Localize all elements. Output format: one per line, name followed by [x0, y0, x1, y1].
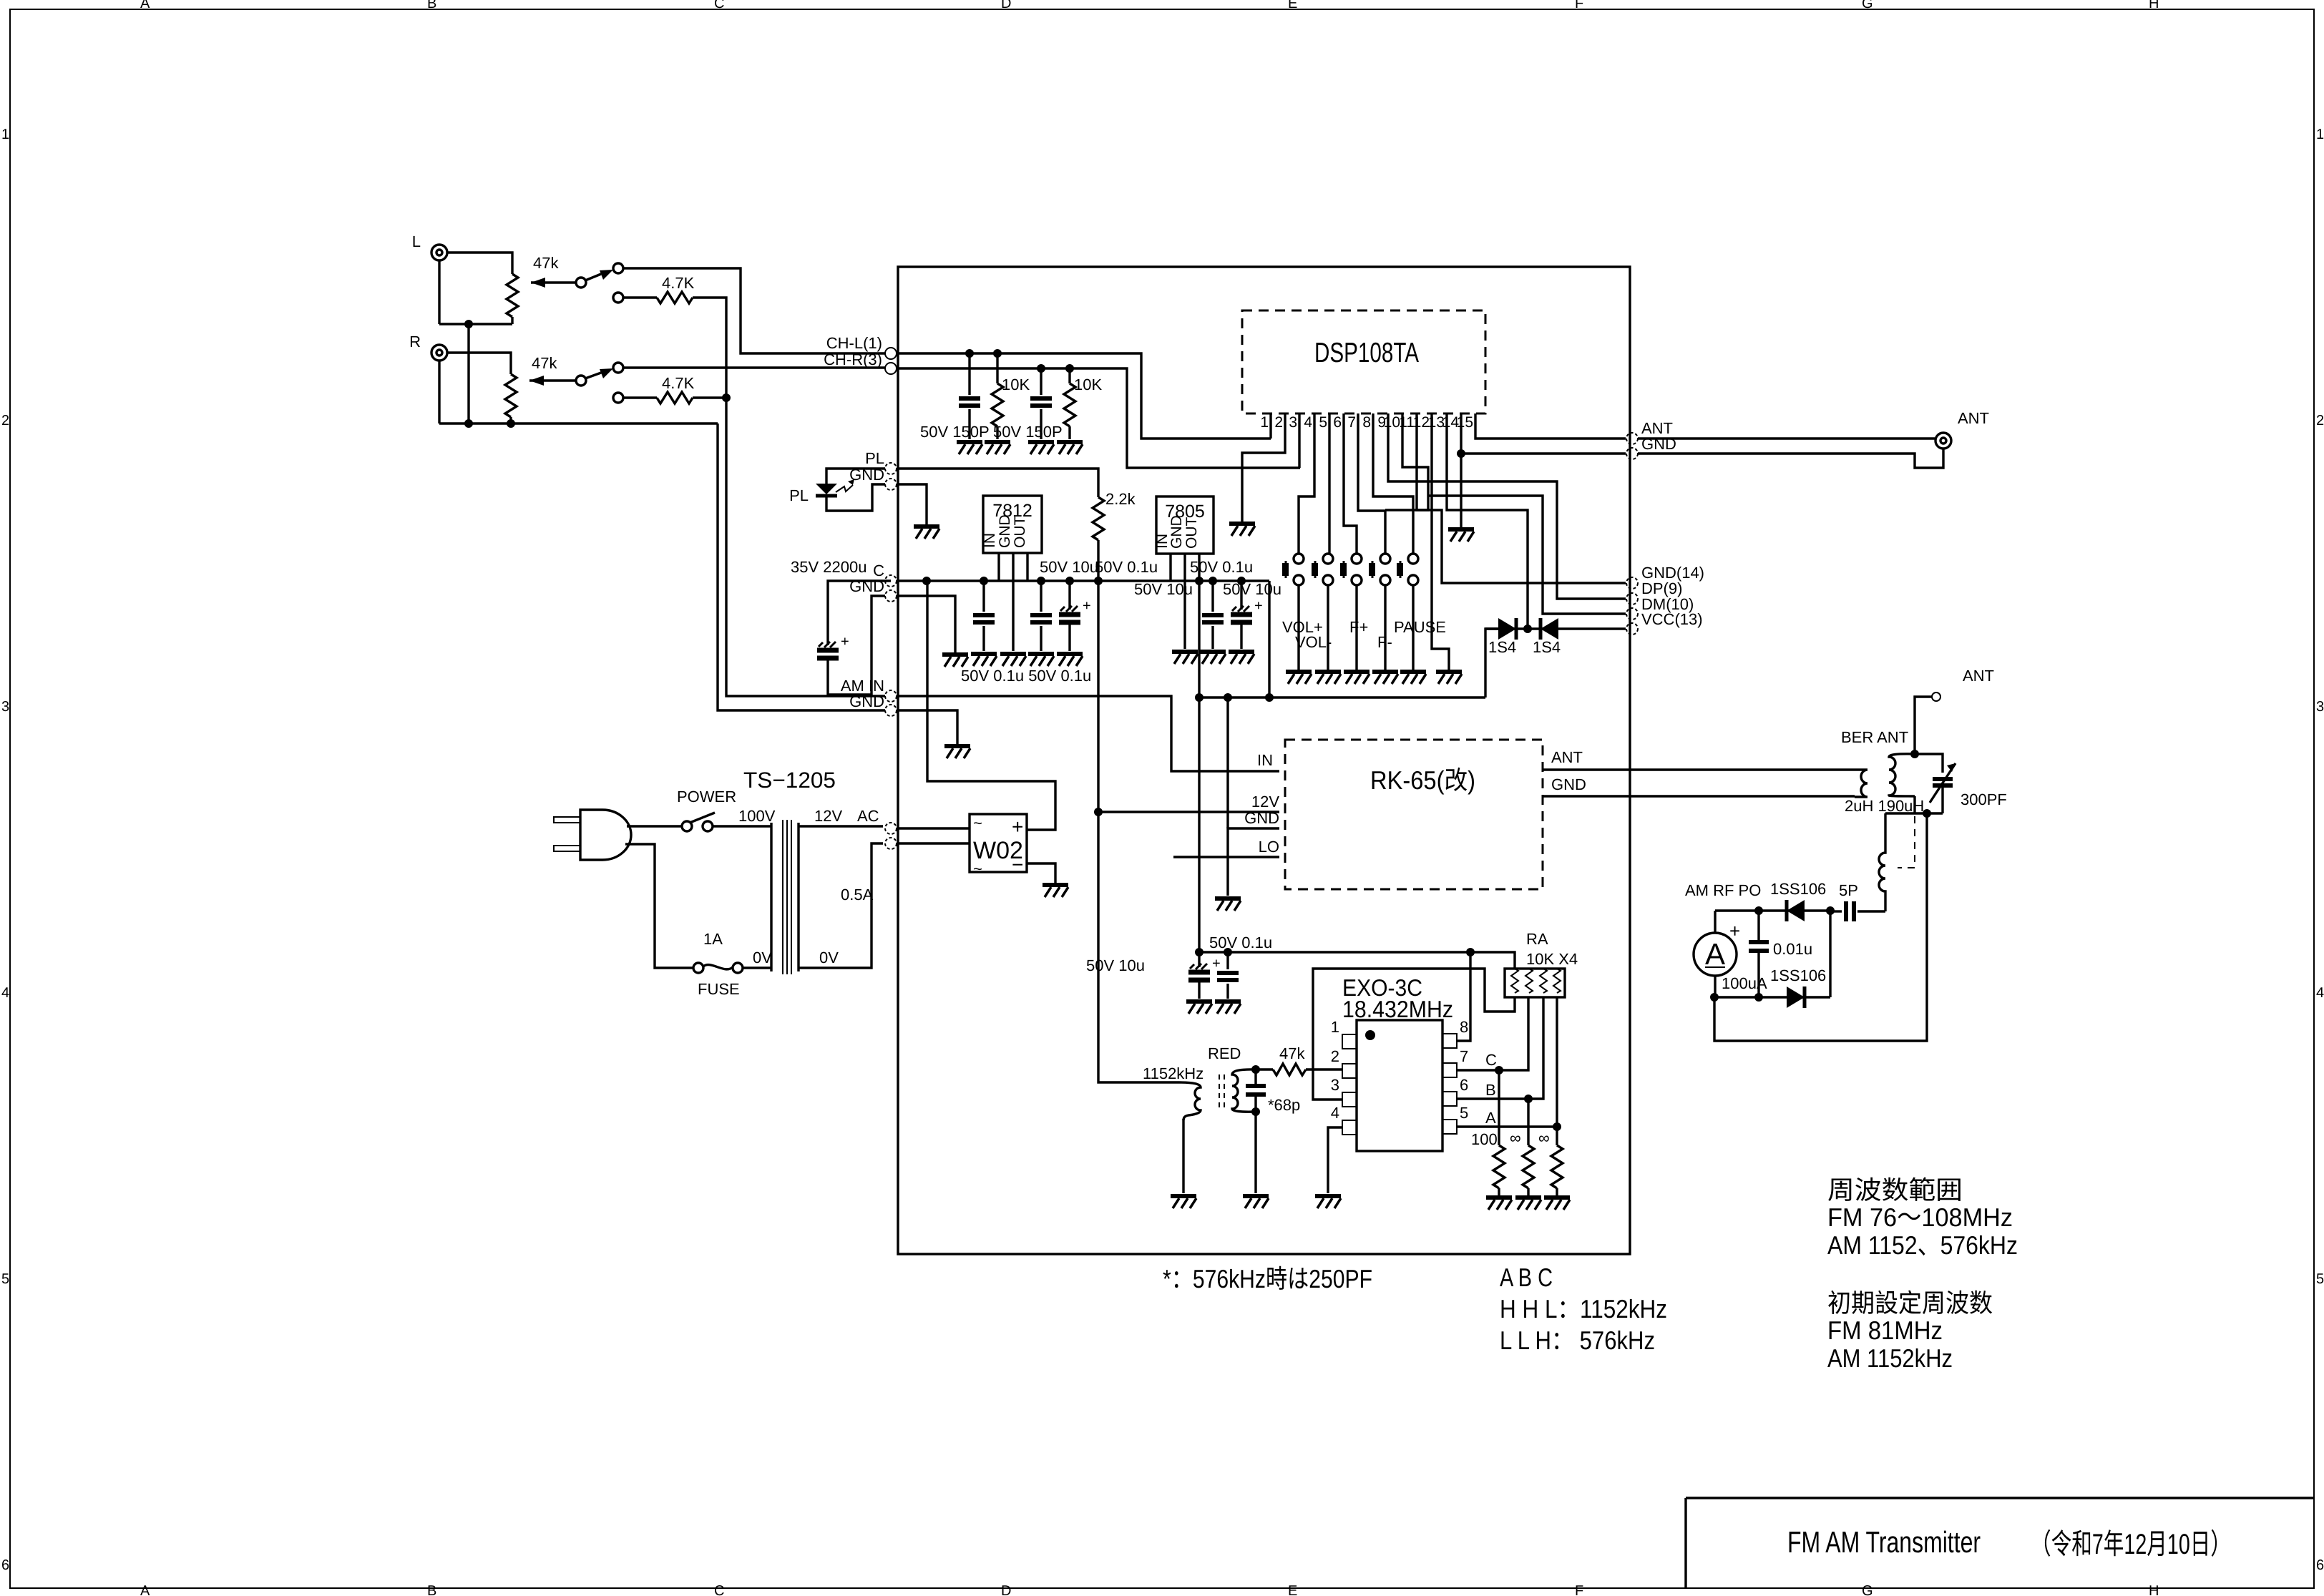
- node CH-R caps: [1037, 364, 1045, 373]
- svg-text:12V: 12V: [1251, 793, 1279, 811]
- svg-text:L: L: [412, 232, 421, 250]
- node BER top: [1910, 750, 1919, 758]
- push button PAUSE: [1397, 554, 1418, 585]
- wire SW-L top throw to CH-L: [623, 268, 885, 353]
- svg-text:B: B: [427, 1583, 436, 1596]
- jack ANT (box right): [1626, 433, 1638, 444]
- svg-text:4: 4: [2316, 985, 2324, 1001]
- wire 68p bottom to ground: [1254, 1112, 1256, 1193]
- wire plug to switch: [627, 825, 682, 827]
- wire CH-R jack to pin3 route: [897, 368, 1300, 468]
- capacitor *68p: [1254, 1069, 1256, 1112]
- IC DSP108TA dashed box: [1242, 310, 1485, 413]
- svg-text:2uH 190uH: 2uH 190uH: [1845, 797, 1924, 815]
- svg-text:4.7K: 4.7K: [662, 274, 695, 292]
- svg-text:12: 12: [1413, 414, 1430, 431]
- ground cap L: [957, 442, 982, 454]
- inductor AM loading coil: [1879, 813, 1885, 911]
- module RK-65(改) dashed box: [1285, 740, 1543, 889]
- jack ANT top right: [1935, 409, 1989, 449]
- svg-text:A: A: [140, 0, 150, 11]
- LED PL: [789, 469, 885, 511]
- svg-text:*68p: *68p: [1268, 1096, 1300, 1114]
- svg-text:1: 1: [1331, 1018, 1339, 1036]
- svg-text:5: 5: [1319, 414, 1327, 431]
- wire coil to 5P: [1857, 910, 1885, 912]
- svg-text:10K: 10K: [1074, 376, 1102, 393]
- title block: [1686, 1498, 2314, 1588]
- svg-text:LO: LO: [1259, 838, 1279, 856]
- wire box GND to jack sleeve: [1638, 449, 1943, 468]
- pin 13 wire to VCC branch: [1447, 413, 1528, 629]
- svg-text:10: 10: [1384, 414, 1400, 431]
- svg-text:GND: GND: [997, 514, 1013, 548]
- AC plug: [554, 810, 631, 860]
- svg-text:15: 15: [1457, 414, 1473, 431]
- svg-text:∞: ∞: [1510, 1129, 1521, 1147]
- svg-text:50V 10u: 50V 10u: [1223, 580, 1281, 598]
- svg-text:1: 1: [1, 127, 9, 142]
- jack GND (box right): [1626, 448, 1638, 459]
- svg-text:4: 4: [1331, 1104, 1339, 1122]
- svg-text:~: ~: [973, 814, 982, 832]
- wire 4.7K R output to AM bus: [693, 396, 726, 398]
- wire C GND to ground: [897, 596, 955, 652]
- node CH-L caps: [965, 349, 974, 358]
- svg-text:B: B: [1485, 1081, 1496, 1099]
- svg-text:2: 2: [2316, 413, 2324, 429]
- node rail taps: [922, 577, 931, 585]
- svg-text:E: E: [1288, 1583, 1297, 1596]
- capacitor 50V 10u (5V): [1240, 581, 1242, 609]
- table A B C: [1500, 1263, 1667, 1355]
- svg-text:1SS106: 1SS106: [1770, 880, 1826, 898]
- main circuit box: [898, 267, 1630, 1254]
- wire secondary top to AC jack: [799, 825, 883, 827]
- svg-text:GND: GND: [849, 692, 884, 710]
- svg-text:4: 4: [1, 985, 9, 1001]
- resistor 2.2k: [1093, 497, 1104, 540]
- svg-text:6: 6: [1460, 1076, 1468, 1094]
- svg-text:ANT: ANT: [1963, 667, 1994, 685]
- jack DM(10): [1626, 608, 1638, 620]
- node RED secondary top: [1251, 1065, 1260, 1074]
- svg-text:B: B: [427, 0, 436, 11]
- jack AM IN: [885, 690, 897, 702]
- svg-text:AM 1152kHz: AM 1152kHz: [1827, 1343, 1953, 1373]
- pin 11 wire to GND(14) jack: [1417, 413, 1626, 583]
- pin 7 wire to F-: [1358, 413, 1385, 554]
- resistor inf 1: [1527, 1099, 1529, 1145]
- svg-text:H: H: [2149, 0, 2159, 11]
- wire SW-R top throw to CH-R: [623, 366, 885, 368]
- svg-text:5: 5: [1, 1271, 9, 1287]
- wire BER top to 300PF: [1915, 754, 1943, 773]
- svg-text:0V: 0V: [753, 949, 772, 966]
- svg-text:50V 0.1u: 50V 0.1u: [1190, 558, 1253, 576]
- svg-text:100uA: 100uA: [1722, 974, 1767, 992]
- wire RA1 to pin node: [1313, 969, 1515, 1069]
- svg-text:GND: GND: [849, 577, 884, 595]
- svg-text:A: A: [1485, 1109, 1496, 1127]
- svg-text:1S4: 1S4: [1488, 638, 1516, 656]
- diode 1S4 (left): [1498, 618, 1516, 640]
- svg-text:50V 10u: 50V 10u: [1040, 558, 1098, 576]
- svg-text:C: C: [714, 1583, 724, 1596]
- ground RK GND: [1215, 899, 1241, 911]
- svg-text:−: −: [1012, 853, 1023, 876]
- node RED secondary bottom: [1251, 1107, 1260, 1116]
- svg-text:F-: F-: [1377, 633, 1392, 651]
- wire switch to transformer primary: [713, 825, 771, 827]
- svg-text:2.2k: 2.2k: [1105, 490, 1136, 508]
- wire box ANT to jack: [1638, 437, 1935, 439]
- push button F-: [1369, 554, 1390, 585]
- transformer TS-1205: [771, 820, 799, 974]
- capacitor 50V 10u (osc): [1198, 952, 1200, 967]
- meter bottom rail: [1714, 911, 1830, 997]
- svg-text:CH-L(1): CH-L(1): [826, 334, 882, 352]
- wire EXO pin4 to ground: [1328, 1127, 1342, 1193]
- wire fuse to primary bottom: [743, 966, 771, 969]
- svg-text:3: 3: [1289, 414, 1297, 431]
- resistor 10K (L): [996, 353, 998, 383]
- wire R jack to pot top: [447, 353, 511, 374]
- wire 1S4 anode return to 5V bus: [1485, 629, 1498, 697]
- node L rail junction: [464, 320, 473, 328]
- svg-text:6: 6: [1333, 414, 1342, 431]
- wire AM IN to RK-65 IN: [897, 696, 1279, 771]
- capacitor 50V 0.1u (osc): [1226, 952, 1229, 969]
- svg-text:0.5A: 0.5A: [841, 886, 874, 904]
- svg-text:D: D: [1001, 0, 1011, 11]
- svg-text:4: 4: [1304, 414, 1312, 431]
- svg-text:PAUSE: PAUSE: [1394, 618, 1446, 636]
- svg-text:FM 81MHz: FM 81MHz: [1827, 1316, 1943, 1345]
- svg-text:+: +: [1012, 816, 1023, 838]
- 5V rail to EXO: [1199, 951, 1470, 953]
- resistor network RA 10K X4: [1505, 930, 1578, 997]
- push button VOL-: [1312, 554, 1333, 585]
- wire meter bottom: [1714, 976, 1716, 997]
- svg-text:100V: 100V: [738, 807, 776, 825]
- svg-text:5P: 5P: [1839, 881, 1858, 899]
- diode 1SS106 (top): [1787, 900, 1805, 921]
- column letters bottom: [140, 1583, 2159, 1596]
- ground PL GND: [914, 527, 939, 539]
- wire CH-L jack to pin1 route: [897, 353, 1271, 439]
- node AM bus join: [722, 393, 731, 402]
- pin 6 wire to F+: [1344, 413, 1357, 554]
- svg-text:RED: RED: [1208, 1044, 1241, 1062]
- ground 10K R: [1057, 442, 1083, 454]
- svg-text:H H L：1152kHz: H H L：1152kHz: [1500, 1294, 1667, 1323]
- jack AM GND: [885, 705, 897, 716]
- resistor inf 2: [1556, 1127, 1558, 1145]
- svg-text:C: C: [1485, 1051, 1497, 1069]
- svg-text:2: 2: [1331, 1047, 1339, 1065]
- resistor 4.7K (R): [623, 374, 695, 403]
- R bottom rail: [439, 417, 718, 424]
- svg-text:3: 3: [1331, 1076, 1339, 1094]
- svg-text:E: E: [1288, 0, 1297, 11]
- text default frequency: [1827, 1288, 1993, 1373]
- svg-text:18.432MHz: 18.432MHz: [1342, 996, 1453, 1022]
- svg-text:10K X4: 10K X4: [1526, 950, 1578, 968]
- wire RA4 down: [1556, 997, 1558, 1127]
- wire L jack down to L bottom rail: [438, 260, 440, 324]
- svg-text:IN: IN: [982, 533, 998, 548]
- svg-text:CH-R(3): CH-R(3): [824, 351, 882, 368]
- svg-text:47k: 47k: [1279, 1044, 1305, 1062]
- transformer BER ANT: [1855, 754, 1915, 797]
- wire secondary bottom to AC jack lower: [799, 843, 883, 968]
- wire L jack to pot top: [447, 253, 512, 274]
- node pin14 to GND jack: [1457, 449, 1465, 458]
- svg-text:100: 100: [1471, 1130, 1498, 1148]
- svg-text:A: A: [1705, 937, 1725, 971]
- svg-text:周波数範囲: 周波数範囲: [1827, 1175, 1963, 1205]
- svg-text:FM AM Transmitter: FM AM Transmitter: [1787, 1525, 1981, 1559]
- jack PL: [885, 463, 897, 474]
- svg-text:F+: F+: [1349, 618, 1368, 636]
- svg-text:47k: 47k: [533, 254, 559, 272]
- svg-text:FM 76〜108MHz: FM 76〜108MHz: [1827, 1203, 2013, 1232]
- svg-text:8: 8: [1460, 1018, 1468, 1036]
- jack CH-L(1): [885, 348, 897, 359]
- wire meter top: [1714, 911, 1716, 933]
- wire W02 + output up to raw rail: [927, 582, 1055, 830]
- wire R rail down to AM GND jack: [718, 424, 885, 710]
- svg-text:（令和7年12月10日）: （令和7年12月10日）: [2031, 1529, 2231, 1560]
- svg-text:50V 0.1u: 50V 0.1u: [1209, 934, 1272, 951]
- ground W02: [1043, 885, 1068, 897]
- text frequency range: [1827, 1175, 2018, 1260]
- svg-text:R: R: [409, 333, 421, 351]
- svg-text:C: C: [714, 0, 724, 11]
- pin 9 wire to DP jack: [1388, 413, 1626, 599]
- svg-text:1A: 1A: [703, 930, 723, 948]
- svg-text:7: 7: [1460, 1047, 1468, 1065]
- resistor 4.7K (L): [623, 274, 695, 303]
- svg-text:GND: GND: [1551, 775, 1586, 793]
- resistor 10K (R): [1068, 368, 1070, 383]
- transformer RED: [1179, 1044, 1256, 1120]
- IC EXO-3C: [1331, 974, 1469, 1151]
- 1S4 diode row wire: [1485, 627, 1626, 630]
- svg-text:47k: 47k: [532, 354, 557, 372]
- pin 10 wire to DM branch: [1385, 413, 1428, 510]
- svg-text:H: H: [2149, 1583, 2159, 1596]
- jack C GND: [885, 590, 897, 602]
- bridge rectifier W02: [970, 814, 1027, 878]
- svg-text:50V 10u: 50V 10u: [1086, 956, 1145, 974]
- svg-text:POWER: POWER: [677, 788, 736, 806]
- svg-text:1S4: 1S4: [1533, 638, 1561, 656]
- svg-text:L L H： 576kHz: L L H： 576kHz: [1500, 1326, 1655, 1355]
- svg-text:RA: RA: [1526, 930, 1548, 948]
- wire RK GND to ground: [1228, 828, 1279, 896]
- svg-text:+: +: [1729, 920, 1740, 941]
- svg-text:G: G: [1862, 0, 1873, 11]
- svg-text:8: 8: [1362, 414, 1371, 431]
- wire BER bottom to rail: [1913, 796, 1915, 813]
- ground 7805 GND: [1172, 652, 1198, 664]
- ground pin12: [1436, 672, 1462, 684]
- svg-text:GND: GND: [1244, 809, 1279, 827]
- svg-text:1: 1: [2316, 127, 2324, 142]
- svg-text:1SS106: 1SS106: [1770, 966, 1826, 984]
- capacitor 50V 0.1u (7812 out): [1040, 581, 1042, 612]
- svg-text:VOL-: VOL-: [1295, 633, 1332, 651]
- svg-text:∞: ∞: [1538, 1129, 1550, 1147]
- pin 15 wire to ANT jack: [1475, 413, 1626, 439]
- svg-text:AC: AC: [857, 807, 879, 825]
- wire RK ANT to BER ANT coil: [1543, 768, 1855, 770]
- wire B line: [1457, 997, 1543, 1099]
- wire plug lower to fuse: [625, 844, 693, 968]
- wire 47k to EXO pin2 and pin3: [1306, 1069, 1342, 1100]
- wire 12V to RK-65: [1098, 811, 1279, 813]
- switch SW-L: [576, 263, 623, 303]
- capacitor 50V 10u (12V): [1068, 581, 1070, 609]
- svg-text:0.01u: 0.01u: [1773, 940, 1812, 958]
- switch SW-R: [576, 363, 623, 403]
- wire RK GND right to BER ANT coil: [1543, 795, 1855, 797]
- jack CH-R(3): [885, 363, 897, 374]
- jack C: [885, 575, 897, 587]
- ground pin14: [1448, 529, 1474, 542]
- wire 7805 out down to 5V rail: [1198, 697, 1200, 952]
- wire DM(10) branch: [1428, 496, 1626, 614]
- wire 4.7K L output down AM bus: [693, 298, 885, 696]
- resistor 100: [1498, 1070, 1500, 1145]
- pin 8 wire to PAUSE: [1373, 413, 1413, 554]
- jack PL GND: [885, 479, 897, 490]
- regulator 7805: [1154, 496, 1214, 697]
- pin 2 wire to ground: [1242, 413, 1285, 522]
- svg-text:1: 1: [1260, 414, 1269, 431]
- ground pin2: [1229, 524, 1255, 536]
- ground 10K L: [985, 442, 1010, 454]
- wire R jack down to R rail: [438, 361, 440, 424]
- svg-text:PL: PL: [789, 486, 809, 504]
- switch POWER: [677, 788, 736, 831]
- jack GND(14): [1626, 577, 1638, 589]
- svg-text:0V: 0V: [819, 949, 839, 966]
- dashed tuning link: [1898, 816, 1915, 868]
- diode 1S4 (right): [1541, 618, 1558, 640]
- svg-text:12V: 12V: [814, 807, 842, 825]
- svg-text:A B C: A B C: [1500, 1263, 1553, 1292]
- L pot bottom rail: [439, 317, 512, 324]
- column letters top: [140, 0, 2159, 11]
- jack DP(9): [1626, 593, 1638, 604]
- capacitor 0.01u: [1757, 911, 1759, 997]
- wire RED left bottom to ground: [1182, 1119, 1184, 1193]
- svg-text:G: G: [1862, 1583, 1873, 1596]
- potentiometer 47k (R): [505, 354, 575, 417]
- wire raw to RED primary: [1098, 581, 1179, 1082]
- svg-text:6: 6: [2316, 1557, 2324, 1573]
- wire meter return loop: [1714, 813, 1927, 1041]
- capacitor 50V 150P (R): [1040, 368, 1042, 395]
- wire 5V to EXO pin8: [1457, 952, 1470, 1041]
- svg-text:PL: PL: [865, 449, 884, 467]
- svg-text:ANT: ANT: [1551, 748, 1583, 766]
- svg-text:GND: GND: [1168, 515, 1185, 549]
- svg-text:1152kHz: 1152kHz: [1143, 1064, 1203, 1082]
- wire AC to W02: [897, 828, 970, 843]
- push button F+: [1340, 554, 1362, 585]
- wire 5P to diode node: [1830, 910, 1842, 912]
- ground AM GND: [944, 746, 970, 758]
- svg-text:4.7K: 4.7K: [662, 374, 695, 392]
- svg-text:2: 2: [1, 413, 9, 429]
- wire 300PF bottom rail: [1885, 785, 1943, 813]
- wire AM ANT jack down: [1915, 697, 1932, 754]
- wire PL to 2.2k: [897, 469, 1098, 497]
- potentiometer 47k (L): [507, 254, 577, 317]
- svg-text:3: 3: [2316, 699, 2324, 715]
- pin 1 wire (CH-L): [1269, 413, 1271, 439]
- ammeter A 100uA: [1694, 920, 1767, 992]
- push button VOL+: [1282, 554, 1304, 585]
- row numbers right: [2316, 127, 2324, 1573]
- diode 1SS106 (bottom): [1787, 987, 1805, 1008]
- svg-text:VCC(13): VCC(13): [1641, 610, 1703, 628]
- ground C GND: [942, 655, 968, 667]
- svg-text:FUSE: FUSE: [698, 980, 740, 998]
- capacitor 300PF variable: [1930, 763, 2007, 808]
- capacitor 5P: [1839, 881, 1858, 921]
- svg-text:*：576kHz時は250PF: *：576kHz時は250PF: [1163, 1264, 1372, 1293]
- jack VCC(13): [1626, 623, 1638, 635]
- svg-text:AM 1152、576kHz: AM 1152、576kHz: [1827, 1230, 2018, 1260]
- ground 7812 GND: [1000, 654, 1026, 666]
- wire LO: [1173, 856, 1279, 858]
- capacitor 50V 0.1u (5V): [1211, 581, 1214, 612]
- svg-text:D: D: [1001, 1583, 1011, 1596]
- svg-text:DSP108TA: DSP108TA: [1314, 338, 1419, 368]
- pin 14 wire to ground: [1460, 413, 1462, 527]
- meter top rail: [1715, 909, 1830, 911]
- svg-text:35V 2200u: 35V 2200u: [791, 558, 866, 576]
- svg-text:F: F: [1575, 1583, 1583, 1596]
- L input jack: [412, 232, 447, 260]
- svg-text:2: 2: [1274, 414, 1283, 431]
- regulator 7812: [982, 496, 1042, 651]
- svg-text:7: 7: [1347, 414, 1356, 431]
- svg-text:AM RF PO: AM RF PO: [1685, 881, 1761, 899]
- svg-text:5: 5: [2316, 1271, 2324, 1287]
- jack ANT (AM bar antenna): [1932, 667, 1994, 701]
- svg-text:A: A: [140, 1583, 150, 1596]
- wire W02 - output to ground: [1027, 863, 1055, 883]
- resistor 47k (osc): [1256, 1068, 1273, 1070]
- svg-text:50V 150P: 50V 150P: [920, 423, 990, 441]
- wire 5V to RA common: [1470, 952, 1515, 969]
- svg-text:OUT: OUT: [1012, 517, 1028, 549]
- svg-text:3: 3: [1, 699, 9, 715]
- svg-text:OUT: OUT: [1183, 517, 1200, 549]
- wire junction down to R rail: [467, 324, 469, 424]
- pin 12 wire to ground: [1432, 413, 1449, 670]
- jack AC upper: [885, 823, 897, 834]
- svg-text:6: 6: [1, 1557, 9, 1573]
- node R rail junctions: [464, 419, 473, 428]
- pin 5 wire to VOL-: [1328, 413, 1330, 554]
